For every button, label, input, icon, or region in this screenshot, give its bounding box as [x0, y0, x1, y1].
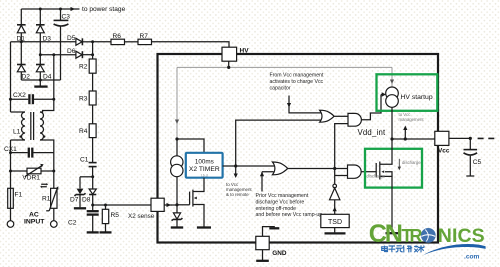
svg-text:R6: R6: [113, 33, 122, 40]
svg-text:.com: .com: [464, 253, 480, 260]
svg-text:entering off-mode: entering off-mode: [256, 206, 297, 212]
svg-text:& to remote: & to remote: [226, 192, 249, 197]
svg-text:L1: L1: [13, 129, 21, 136]
svg-text:R2: R2: [79, 64, 88, 71]
svg-text:CX2: CX2: [13, 92, 26, 99]
svg-text:GND: GND: [272, 250, 287, 257]
svg-text:Vdd_int: Vdd_int: [358, 128, 386, 137]
svg-text:100ms: 100ms: [195, 158, 214, 165]
svg-text:t.b.d: t.b.d: [201, 173, 208, 177]
svg-text:C1: C1: [80, 157, 89, 164]
svg-text:AC: AC: [29, 212, 39, 219]
svg-text:management: management: [399, 117, 425, 122]
svg-text:discharge Vcc before: discharge Vcc before: [256, 200, 305, 206]
svg-text:C5: C5: [473, 159, 482, 166]
svg-text:TR: TR: [402, 226, 423, 246]
svg-text:discharge: discharge: [402, 160, 421, 165]
svg-text:F1: F1: [15, 192, 23, 199]
svg-text:X2 TIMER: X2 TIMER: [189, 166, 220, 173]
svg-text:D8: D8: [82, 197, 91, 204]
svg-text:Prior Vcc management: Prior Vcc management: [256, 193, 309, 199]
svg-text:D5: D5: [67, 35, 76, 42]
svg-text:X2 sense: X2 sense: [128, 213, 155, 220]
svg-text:INPUT: INPUT: [24, 219, 45, 226]
svg-text:to power stage: to power stage: [82, 6, 126, 13]
svg-text:activates to charge Vcc: activates to charge Vcc: [270, 79, 324, 85]
svg-text:C2: C2: [68, 220, 77, 227]
svg-text:R4: R4: [79, 128, 88, 135]
svg-text:HV startup: HV startup: [401, 94, 433, 101]
svg-text:R5: R5: [111, 212, 120, 219]
svg-text:C3: C3: [62, 14, 71, 21]
svg-text:capacitor: capacitor: [270, 86, 291, 92]
svg-text:CN: CN: [369, 220, 402, 248]
svg-text:discharge: discharge: [367, 174, 386, 179]
svg-text:R1: R1: [42, 196, 51, 203]
svg-text:NICS: NICS: [438, 225, 485, 247]
svg-text:CX1: CX1: [4, 146, 17, 153]
svg-text:R7: R7: [140, 33, 149, 40]
svg-text:HV: HV: [240, 48, 250, 55]
svg-text:D6: D6: [67, 48, 76, 55]
svg-text:TSD: TSD: [328, 219, 342, 226]
svg-text:Vcc: Vcc: [438, 147, 450, 154]
svg-text:and before new Vcc ramp-up: and before new Vcc ramp-up: [256, 212, 323, 218]
svg-text:D7: D7: [70, 197, 79, 204]
svg-text:R3: R3: [79, 96, 88, 103]
svg-text:From Vcc management: From Vcc management: [270, 73, 324, 79]
svg-text:VDR1: VDR1: [22, 175, 40, 182]
